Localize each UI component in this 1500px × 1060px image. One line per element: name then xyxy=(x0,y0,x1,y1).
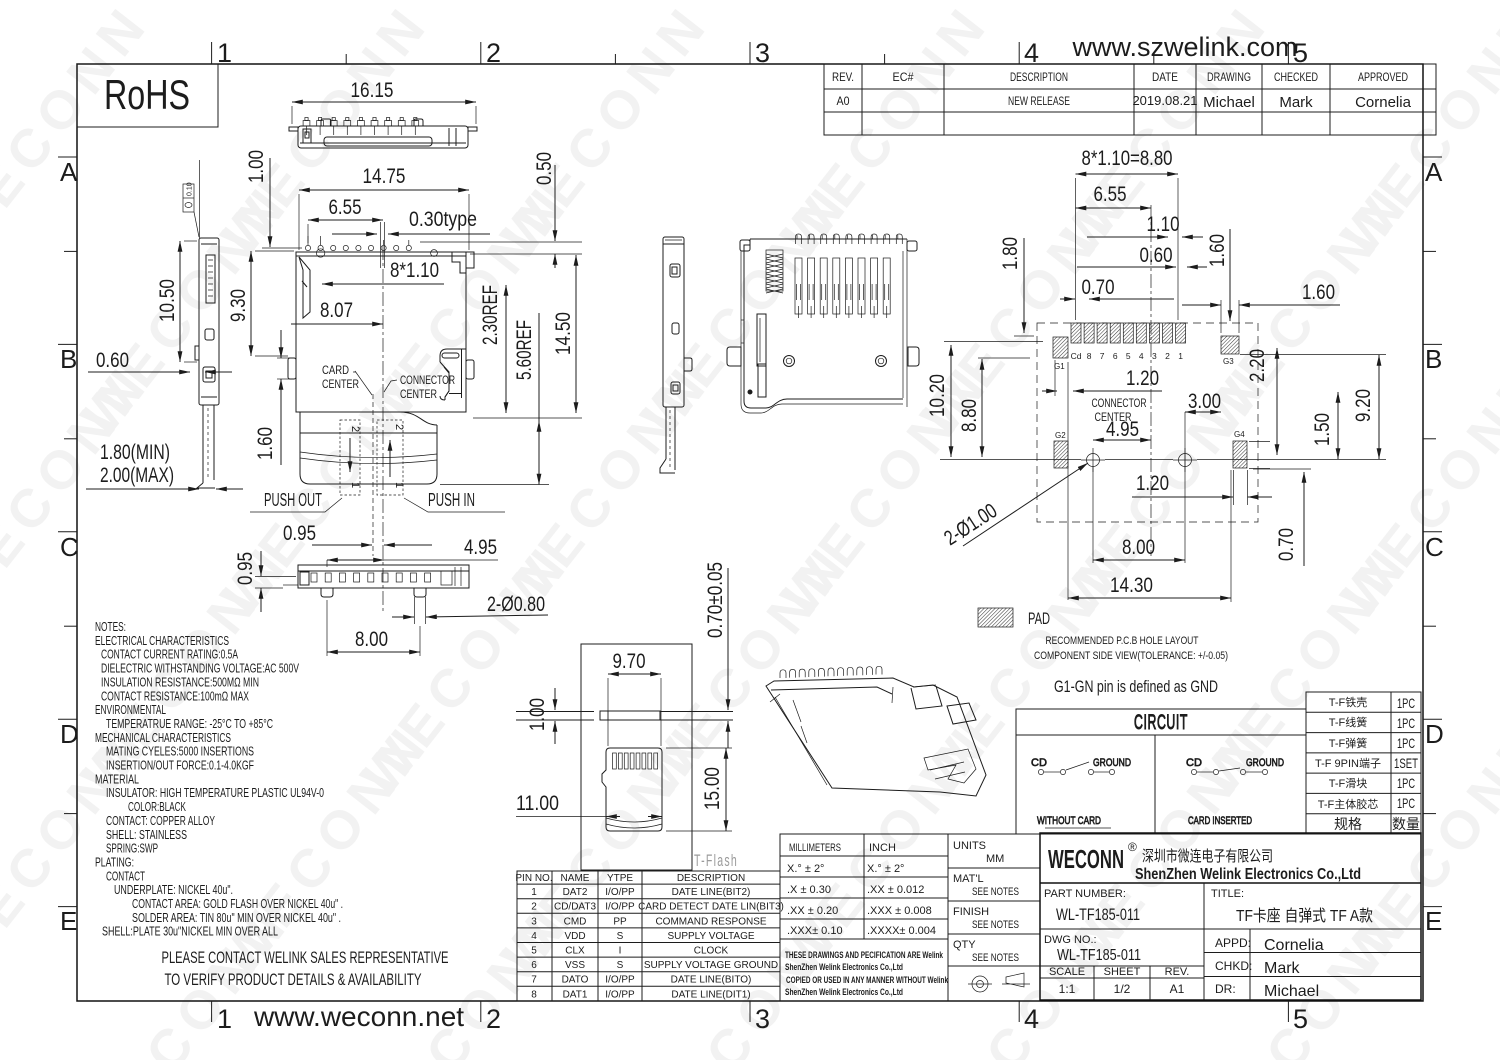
svg-text:Michael: Michael xyxy=(1203,94,1255,111)
svg-text:SOLDER AREA: TIN 80u" MIN OVER: SOLDER AREA: TIN 80u" MIN OVER NICKEL 40… xyxy=(132,910,341,925)
approvals xyxy=(1215,936,1324,1000)
svg-text:MECHANICAL CHARACTERISTICS: MECHANICAL CHARACTERISTICS xyxy=(95,730,231,745)
svg-text:1: 1 xyxy=(393,482,405,488)
svg-text:.XXXX± 0.004: .XXXX± 0.004 xyxy=(867,925,936,937)
svg-text:5.60REF: 5.60REF xyxy=(513,320,536,380)
frame zone ticks top xyxy=(212,42,1289,64)
svg-text:1PC: 1PC xyxy=(1397,735,1415,751)
svg-text:G1: G1 xyxy=(1054,362,1065,371)
svg-text:5: 5 xyxy=(1293,1004,1308,1034)
svg-text:ShenZhen Welink Electronics Co: ShenZhen Welink Electronics Co.,Ltd xyxy=(785,987,903,997)
title block xyxy=(1040,833,1421,1000)
dim 14.75 xyxy=(299,165,469,250)
svg-text:WL-TF185-011: WL-TF185-011 xyxy=(1056,905,1140,924)
svg-text:0.70: 0.70 xyxy=(1082,276,1115,299)
svg-text:INSULATION RESISTANCE:500MΩ MI: INSULATION RESISTANCE:500MΩ MIN xyxy=(101,674,259,689)
pad G4 xyxy=(1233,430,1247,468)
pcb center line xyxy=(1150,205,1152,556)
dim 14.30 xyxy=(1068,574,1231,598)
svg-text:数量: 数量 xyxy=(1392,816,1420,832)
svg-text:CONTACT AREA: GOLD FLASH OVER: CONTACT AREA: GOLD FLASH OVER NICKEL 40u… xyxy=(132,896,343,911)
svg-text:.XXX ± 0.008: .XXX ± 0.008 xyxy=(867,905,932,917)
bottom view pin loops xyxy=(796,234,903,244)
svg-text:TITLE:: TITLE: xyxy=(1211,888,1244,900)
dim 0.60 xyxy=(88,349,232,372)
svg-text:Mark: Mark xyxy=(1264,960,1301,977)
dim 4.95 pcb xyxy=(1093,418,1151,441)
dim 6.55 pcb xyxy=(1076,183,1152,208)
svg-text:INCH: INCH xyxy=(869,842,896,854)
svg-text:1: 1 xyxy=(1178,351,1183,361)
svg-text:PUSH IN: PUSH IN xyxy=(428,490,475,510)
svg-text:CENTER: CENTER xyxy=(322,377,359,391)
svg-text:1.20: 1.20 xyxy=(1126,367,1159,390)
dim 0.70 right low xyxy=(1275,472,1304,566)
svg-text:6: 6 xyxy=(531,960,537,971)
svg-text:1.60: 1.60 xyxy=(1302,281,1335,304)
dim 1.20 G4 xyxy=(1132,472,1272,497)
hole cross left xyxy=(1081,448,1105,472)
pcb pad numbers xyxy=(1071,351,1184,361)
dim 11.00 xyxy=(516,792,662,817)
svg-text:THESE DRAWINGS AND PECIFICATIO: THESE DRAWINGS AND PECIFICATION ARE Weli… xyxy=(785,950,944,960)
dim 0.30type xyxy=(332,208,490,234)
svg-text:7: 7 xyxy=(531,975,537,986)
svg-text:PIN NO.: PIN NO. xyxy=(515,873,552,884)
dim 9.70 xyxy=(608,650,661,746)
svg-text:DWG NO.:: DWG NO.: xyxy=(1044,934,1097,946)
svg-text:10.20: 10.20 xyxy=(926,374,949,417)
top elevation pins xyxy=(303,118,419,136)
dim 10.20 xyxy=(926,342,1043,458)
svg-text:www.szwelink.com: www.szwelink.com xyxy=(1071,32,1297,62)
bottom side view contacts xyxy=(311,573,431,582)
svg-text:TEMPERATRUE RANGE: -25°C TO +8: TEMPERATRUE RANGE: -25°C TO +85°C xyxy=(106,716,273,731)
svg-text:APPD:: APPD: xyxy=(1215,936,1251,950)
svg-text:A: A xyxy=(1425,157,1443,187)
svg-text:A1: A1 xyxy=(1170,982,1185,996)
svg-text:8.00: 8.00 xyxy=(1122,536,1155,559)
svg-text:1.10: 1.10 xyxy=(1147,213,1180,236)
svg-text:3: 3 xyxy=(1152,351,1157,361)
svg-text:www.weconn.net: www.weconn.net xyxy=(253,1001,464,1032)
dim 3.00 xyxy=(1185,390,1221,413)
dim 1.50 xyxy=(1311,392,1338,459)
dim 2.30REF xyxy=(479,285,506,413)
svg-text:VSS: VSS xyxy=(565,960,585,971)
svg-text:DRAWING: DRAWING xyxy=(1207,70,1251,84)
svg-text:5: 5 xyxy=(531,946,537,957)
pad G2 xyxy=(1054,431,1068,468)
svg-text:YTPE: YTPE xyxy=(607,873,633,884)
notes text block xyxy=(95,619,343,939)
svg-text:G2: G2 xyxy=(1055,431,1066,440)
svg-text:0.50: 0.50 xyxy=(533,152,556,185)
svg-text:T-F滑块: T-F滑块 xyxy=(1329,777,1368,790)
svg-text:NOTES:: NOTES: xyxy=(95,619,126,634)
svg-text:CD: CD xyxy=(1186,757,1202,769)
dim 1.80min 2.00max xyxy=(86,441,243,489)
svg-text:9.20: 9.20 xyxy=(1352,389,1375,422)
svg-text:CHKD:: CHKD: xyxy=(1215,959,1252,973)
svg-text:1.50: 1.50 xyxy=(1311,413,1334,446)
svg-text:C: C xyxy=(1425,532,1444,562)
svg-text:8.07: 8.07 xyxy=(320,299,353,322)
svg-text:SPRING:SWP: SPRING:SWP xyxy=(106,841,158,856)
svg-text:SUPPLY VOLTAGE: SUPPLY VOLTAGE xyxy=(667,931,754,942)
svg-text:0.70±0.05: 0.70±0.05 xyxy=(704,562,727,638)
svg-text:A: A xyxy=(60,157,78,187)
svg-text:0.60: 0.60 xyxy=(1140,244,1173,267)
svg-text:PART NUMBER:: PART NUMBER: xyxy=(1044,888,1126,900)
svg-text:1/2: 1/2 xyxy=(1114,982,1131,996)
dim 1.60 left xyxy=(254,330,290,465)
svg-text:ENVIRONMENTAL: ENVIRONMENTAL xyxy=(95,702,166,717)
svg-text:S: S xyxy=(617,931,624,942)
svg-text:1.80(MIN): 1.80(MIN) xyxy=(100,441,170,464)
dim 0.70+-0.05 xyxy=(704,562,728,748)
svg-text:PUSH OUT: PUSH OUT xyxy=(264,490,322,510)
0.30 slot feature xyxy=(381,222,385,268)
push arrows xyxy=(349,424,405,488)
svg-text:X.° ± 2°: X.° ± 2° xyxy=(787,863,824,875)
top elevation view xyxy=(289,119,477,148)
svg-text:A0: A0 xyxy=(837,94,850,108)
svg-text:.XX ± 0.012: .XX ± 0.012 xyxy=(867,884,924,896)
svg-text:1.00: 1.00 xyxy=(245,150,268,183)
RoHS box xyxy=(77,64,218,127)
svg-text:E: E xyxy=(60,906,77,936)
svg-text:DR:: DR: xyxy=(1215,982,1236,996)
svg-text:EC#: EC# xyxy=(893,70,914,84)
svg-text:SEE NOTES: SEE NOTES xyxy=(972,952,1019,964)
dim 8x1.10 plan xyxy=(322,259,444,284)
svg-text:规格: 规格 xyxy=(1334,816,1362,832)
frame zone numbers top xyxy=(217,38,1308,68)
frame zone numbers bottom xyxy=(217,1004,1308,1034)
svg-text:VDD: VDD xyxy=(564,931,585,942)
push in label xyxy=(404,490,505,512)
svg-text:15.00: 15.00 xyxy=(701,767,724,810)
frame zone ticks bottom xyxy=(212,1001,1289,1022)
svg-text:SHEET: SHEET xyxy=(1104,966,1141,978)
svg-text:DAT2: DAT2 xyxy=(563,887,588,898)
svg-text:T-F铁壳: T-F铁壳 xyxy=(1329,695,1368,709)
svg-text:11.00: 11.00 xyxy=(516,792,559,815)
datum extension line xyxy=(199,160,201,238)
svg-text:I/O/PP: I/O/PP xyxy=(605,975,635,986)
svg-text:E: E xyxy=(1425,906,1442,936)
card center line xyxy=(372,394,374,556)
svg-text:G4: G4 xyxy=(1234,430,1245,439)
svg-text:ShenZhen Welink Electronics Co: ShenZhen Welink Electronics Co.,Ltd xyxy=(785,962,903,972)
dim 1.60 right pcb xyxy=(1182,281,1340,305)
svg-text:G1-GN pin is defined as GND: G1-GN pin is defined as GND xyxy=(1054,677,1218,696)
svg-text:6.55: 6.55 xyxy=(1094,183,1127,206)
svg-text:DIELECTRIC WITHSTANDING VOLTAG: DIELECTRIC WITHSTANDING VOLTAGE:AC 500V xyxy=(101,661,299,676)
svg-text:.XXX± 0.10: .XXX± 0.10 xyxy=(787,925,843,937)
part number cell xyxy=(1044,888,1373,925)
svg-text:1: 1 xyxy=(531,887,537,898)
dim 16.15 xyxy=(292,79,476,124)
svg-text:2: 2 xyxy=(531,902,537,913)
pcb signal pads xyxy=(1071,323,1186,343)
svg-text:6: 6 xyxy=(1113,351,1118,361)
svg-text:1PC: 1PC xyxy=(1397,775,1415,791)
svg-text:3.00: 3.00 xyxy=(1188,390,1221,413)
svg-text:3: 3 xyxy=(531,916,537,927)
pin table xyxy=(517,871,780,1001)
svg-text:14.30: 14.30 xyxy=(1110,574,1153,597)
dim 8.00 left xyxy=(327,600,420,656)
svg-text:9.30: 9.30 xyxy=(227,289,250,322)
svg-text:4.95: 4.95 xyxy=(464,536,497,559)
svg-text:1.60: 1.60 xyxy=(254,427,277,460)
drawing frame xyxy=(77,64,1423,1001)
svg-text:WL-TF185-011: WL-TF185-011 xyxy=(1057,947,1141,964)
spring coil xyxy=(766,250,783,293)
push out label xyxy=(250,490,342,512)
svg-text:SEE NOTES: SEE NOTES xyxy=(972,919,1019,931)
dim 8.07 xyxy=(291,299,383,324)
svg-text:WITHOUT CARD: WITHOUT CARD xyxy=(1037,815,1101,827)
dim 9.20 xyxy=(1352,355,1379,459)
svg-text:CLOCK: CLOCK xyxy=(694,946,729,957)
svg-text:DATO: DATO xyxy=(562,975,589,986)
svg-text:CD/DAT3: CD/DAT3 xyxy=(554,902,596,913)
card in plan view xyxy=(296,412,437,484)
svg-text:1.60: 1.60 xyxy=(1206,234,1229,267)
dim 1.60 vertical pcb xyxy=(1206,229,1230,321)
bottom view shell xyxy=(727,239,919,413)
card housing outline xyxy=(581,644,692,870)
svg-text:DATE LINE(DIT1): DATE LINE(DIT1) xyxy=(671,989,750,1000)
svg-text:4: 4 xyxy=(531,931,537,942)
svg-text:8: 8 xyxy=(531,989,537,1000)
svg-text:RECOMMENDED P.C.B HOLE LAYOUT: RECOMMENDED P.C.B HOLE LAYOUT xyxy=(1046,635,1199,647)
svg-text:Mark: Mark xyxy=(1279,94,1313,111)
svg-text:CD: CD xyxy=(1031,757,1047,769)
svg-text:COMPONENT SIDE VIEW(TOLERANCE:: COMPONENT SIDE VIEW(TOLERANCE: +/-0.05) xyxy=(1034,650,1228,662)
frame zone ticks right xyxy=(1423,157,1442,907)
svg-text:14.75: 14.75 xyxy=(363,165,406,188)
svg-text:5: 5 xyxy=(1126,351,1131,361)
dim 1.10 pcb xyxy=(1087,213,1203,237)
svg-text:®: ® xyxy=(1128,840,1137,854)
svg-text:.XX ± 0.20: .XX ± 0.20 xyxy=(787,905,838,917)
svg-text:T-F弹簧: T-F弹簧 xyxy=(1329,736,1368,750)
screw holes xyxy=(748,356,887,395)
svg-text:.X ± 0.30: .X ± 0.30 xyxy=(787,884,831,896)
parts list table xyxy=(1306,692,1421,834)
svg-text:CONNECTOR: CONNECTOR xyxy=(1092,396,1147,410)
svg-text:B: B xyxy=(1425,344,1442,374)
dim 2-O0.80 xyxy=(392,593,548,624)
svg-text:I: I xyxy=(619,946,622,957)
svg-text:PP: PP xyxy=(613,916,627,927)
svg-text:3: 3 xyxy=(755,38,770,68)
svg-text:8: 8 xyxy=(1087,351,1092,361)
svg-text:Cornelia: Cornelia xyxy=(1264,937,1324,954)
svg-text:C: C xyxy=(60,532,79,562)
svg-text:I/O/PP: I/O/PP xyxy=(605,902,635,913)
svg-text:2: 2 xyxy=(393,424,405,430)
svg-text:COLOR:BLACK: COLOR:BLACK xyxy=(128,799,186,814)
svg-text:4: 4 xyxy=(1024,1004,1039,1034)
svg-text:0.60: 0.60 xyxy=(96,349,129,372)
svg-text:4: 4 xyxy=(1139,351,1144,361)
svg-text:1SET: 1SET xyxy=(1394,755,1418,771)
svg-text:PLEASE CONTACT WELINK SALES RE: PLEASE CONTACT WELINK SALES REPRESENTATI… xyxy=(162,948,449,967)
svg-text:T-F主体胶芯: T-F主体胶芯 xyxy=(1318,797,1379,811)
svg-text:T-F线簧: T-F线簧 xyxy=(1329,715,1368,729)
svg-text:GROUND: GROUND xyxy=(1093,757,1131,769)
svg-text:0.10: 0.10 xyxy=(187,182,194,196)
svg-text:8*1.10: 8*1.10 xyxy=(390,259,439,282)
svg-text:RoHS: RoHS xyxy=(104,71,190,118)
dim 9.30 xyxy=(227,251,294,356)
svg-text:X.° ± 2°: X.° ± 2° xyxy=(867,863,904,875)
svg-text:DESCRIPTION: DESCRIPTION xyxy=(677,873,745,884)
svg-text:8.00: 8.00 xyxy=(355,628,388,651)
dim 2.20 xyxy=(1246,348,1277,455)
pcb extension lines xyxy=(1014,178,1386,602)
svg-text:REV.: REV. xyxy=(1165,966,1190,978)
card bottom arcs xyxy=(606,818,662,828)
svg-text:B: B xyxy=(60,344,77,374)
svg-text:COMMAND RESPONSE: COMMAND RESPONSE xyxy=(655,916,766,927)
svg-text:CIRCUIT: CIRCUIT xyxy=(1134,711,1188,734)
svg-text:WECONN: WECONN xyxy=(1048,844,1124,874)
svg-text:D: D xyxy=(60,719,79,749)
svg-text:MAT'L: MAT'L xyxy=(953,873,984,885)
tolerance table text xyxy=(787,842,936,937)
svg-text:PLATING:: PLATING: xyxy=(95,854,134,869)
tolerance flag 0.10 xyxy=(183,182,199,237)
svg-text:SEE NOTES: SEE NOTES xyxy=(972,886,1019,898)
dim 1.20 G1 xyxy=(1042,367,1162,391)
left side view xyxy=(195,238,219,488)
svg-text:1PC: 1PC xyxy=(1397,695,1415,711)
3d view pins xyxy=(780,666,882,678)
leader 2-O1.00 xyxy=(940,463,1088,550)
svg-text:Cd: Cd xyxy=(1071,351,1082,361)
connector center label pcb xyxy=(1092,396,1147,424)
svg-text:NAME: NAME xyxy=(561,873,590,884)
dim 1.80 pcb xyxy=(999,237,1024,333)
svg-text:UNDERPLATE: NICKEL 40u".: UNDERPLATE: NICKEL 40u". xyxy=(114,882,233,897)
svg-text:MM: MM xyxy=(986,853,1004,865)
svg-text:SUPPLY VOLTAGE GROUND: SUPPLY VOLTAGE GROUND xyxy=(644,960,778,971)
pcb hole axis lines xyxy=(940,459,1386,461)
dim 0.95 center offset xyxy=(283,522,432,545)
svg-text:2.30REF: 2.30REF xyxy=(479,285,502,345)
svg-text:0.95: 0.95 xyxy=(283,522,316,545)
bottom side view xyxy=(283,565,469,597)
svg-text:D: D xyxy=(1425,719,1444,749)
svg-text:DATE LINE(BIT2): DATE LINE(BIT2) xyxy=(672,887,751,898)
svg-text:CMD: CMD xyxy=(564,916,587,927)
sales note xyxy=(162,948,449,989)
svg-text:CLX: CLX xyxy=(565,946,585,957)
circuit switch card inserted xyxy=(1186,757,1284,827)
svg-text:DESCRIPTION: DESCRIPTION xyxy=(1010,70,1068,84)
svg-text:2: 2 xyxy=(486,38,501,68)
svg-text:1.80: 1.80 xyxy=(999,237,1022,270)
svg-text:CONTACT RESISTANCE:100mΩ MAX: CONTACT RESISTANCE:100mΩ MAX xyxy=(101,688,249,703)
svg-text:GROUND: GROUND xyxy=(1246,757,1284,769)
svg-text:9.70: 9.70 xyxy=(613,650,646,673)
svg-text:CENTER: CENTER xyxy=(400,387,437,401)
svg-text:6.55: 6.55 xyxy=(329,196,362,219)
connector center label xyxy=(384,373,455,401)
svg-text:CARD: CARD xyxy=(322,363,349,377)
svg-text:7: 7 xyxy=(1100,351,1105,361)
svg-text:ELECTRICAL CHARACTERISTICS: ELECTRICAL CHARACTERISTICS xyxy=(95,633,229,648)
pcb note text xyxy=(1034,635,1228,662)
circuit switch without card xyxy=(1031,757,1131,828)
main plan view body xyxy=(288,252,474,412)
svg-text:SCALE: SCALE xyxy=(1049,966,1085,978)
svg-text:2-Ø0.80: 2-Ø0.80 xyxy=(487,593,545,616)
svg-text:1PC: 1PC xyxy=(1397,795,1415,811)
svg-text:INSERTION/OUT FORCE:0.1-4.0KGF: INSERTION/OUT FORCE:0.1-4.0KGF xyxy=(106,758,254,773)
svg-text:FINISH: FINISH xyxy=(953,906,989,918)
side view 2 xyxy=(660,237,692,473)
pin table text xyxy=(515,873,784,1000)
dim 14.50 xyxy=(473,255,582,418)
dwg no cell xyxy=(1044,934,1189,996)
pcb layout dashed outline xyxy=(1037,323,1258,522)
card contact stripes xyxy=(613,753,658,769)
t-flash card front xyxy=(602,748,662,831)
svg-text:0.95: 0.95 xyxy=(234,552,257,585)
svg-text:2: 2 xyxy=(349,426,361,432)
svg-text:DAT1: DAT1 xyxy=(563,989,588,1000)
tolerance table xyxy=(780,834,1040,1001)
svg-text:I/O/PP: I/O/PP xyxy=(605,887,635,898)
svg-text:2019.08.21: 2019.08.21 xyxy=(1132,93,1197,108)
dim 0.70 pcb xyxy=(1060,276,1174,299)
svg-text:CHECKED: CHECKED xyxy=(1274,70,1318,84)
svg-text:REV.: REV. xyxy=(832,70,854,84)
svg-text:TF卡座 自弹式 TF A款: TF卡座 自弹式 TF A款 xyxy=(1236,907,1373,925)
dim 0.60 pcb xyxy=(1077,244,1207,267)
dim 1.00 card xyxy=(526,688,555,744)
svg-text:14.50: 14.50 xyxy=(552,312,575,355)
card edge-on bar xyxy=(516,711,733,720)
svg-text:1PC: 1PC xyxy=(1397,715,1415,731)
svg-text:CARD INSERTED: CARD INSERTED xyxy=(1188,815,1252,827)
svg-text:Michael: Michael xyxy=(1264,983,1319,1000)
svg-text:NEW RELEASE: NEW RELEASE xyxy=(1008,94,1070,108)
svg-text:10.50: 10.50 xyxy=(156,279,179,322)
push tracks xyxy=(340,420,403,495)
dim 8.80 xyxy=(958,358,1030,457)
dim 8.00 pcb xyxy=(1093,536,1185,560)
svg-text:3: 3 xyxy=(755,1004,770,1034)
connector center line xyxy=(382,246,384,611)
svg-text:2.00(MAX): 2.00(MAX) xyxy=(100,464,174,487)
dim 1.00 xyxy=(245,150,302,248)
PAD legend xyxy=(978,608,1050,628)
svg-text:16.15: 16.15 xyxy=(351,79,394,102)
svg-text:1: 1 xyxy=(349,482,361,488)
svg-text:COPIED OR USED IN ANY MANNER W: COPIED OR USED IN ANY MANNER WITHOUT Wel… xyxy=(786,975,949,985)
svg-text:CONTACT CURRENT RATING:0.5A: CONTACT CURRENT RATING:0.5A xyxy=(101,647,238,662)
dim 8x1.10=8.80 xyxy=(1076,147,1179,174)
svg-text:MILLIMETERS: MILLIMETERS xyxy=(789,842,841,854)
